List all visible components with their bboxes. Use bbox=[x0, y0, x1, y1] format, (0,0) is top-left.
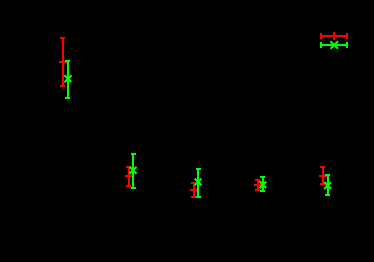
green series errorbar P5 bbox=[324, 174, 331, 196]
green series errorbar P3 bbox=[195, 168, 202, 198]
green series errorbar P2 bbox=[130, 153, 137, 189]
red series errorbar P2 bbox=[125, 166, 133, 187]
red series errorbar P3 bbox=[190, 182, 198, 198]
green series errorbar P1 bbox=[65, 60, 72, 99]
legend red sample bbox=[320, 32, 348, 40]
legend green sample bbox=[320, 41, 348, 49]
red series errorbar P4 bbox=[254, 179, 262, 191]
red series errorbar P1 bbox=[59, 37, 67, 87]
red series errorbar P5 bbox=[319, 166, 327, 185]
green series errorbar P4 bbox=[260, 176, 267, 192]
